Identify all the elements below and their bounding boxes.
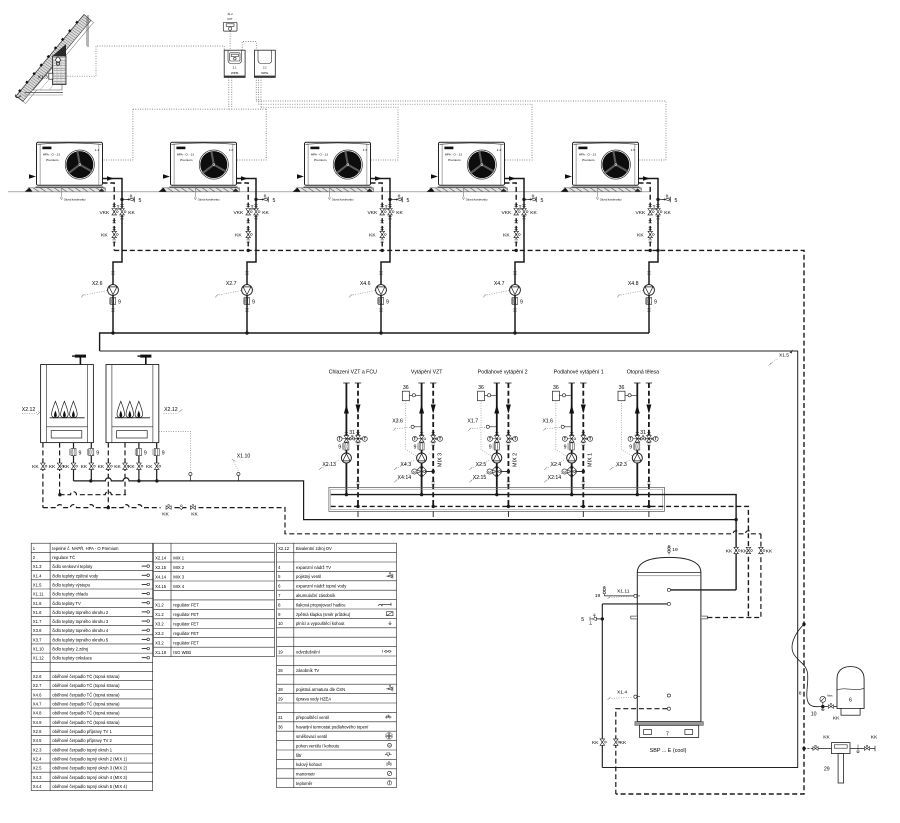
shut-off valve KK on supply of 1.2 [254,205,257,207]
boiler return bus A [60,492,127,495]
pump X2.3 of Otopná tělesa [632,453,642,463]
check valve 9 of Otopná tělesa [634,443,640,450]
svg-text:čidlo teploty topného okruhu 4: čidlo teploty topného okruhu 4 [52,628,109,633]
junction supply [570,493,573,496]
svg-text:9: 9 [564,445,567,451]
stub below manifold [507,511,509,517]
svg-text:MIX 3: MIX 3 [173,574,185,579]
return line of Podlahové vytápění 2 [505,382,511,384]
svg-text:6: 6 [849,698,852,704]
flow arrow on supply of 1.5 [643,176,650,180]
flexible connection hose 8 [792,624,818,707]
svg-text:směšovací ventil: směšovací ventil [296,734,327,739]
return line of Podlahové vytápění 1 [580,382,586,384]
svg-text:X1.4: X1.4 [33,573,42,578]
svg-text:1.3: 1.3 [363,148,368,152]
svg-text:X1.2: X1.2 [227,12,233,16]
drain between valves [175,507,187,509]
check valve 9 on boiler supply 1 [70,449,76,456]
bridge between pipes of 1.4 [516,208,524,210]
svg-text:X1.5: X1.5 [779,353,789,359]
svg-text:Podlahové vytápění 1: Podlahové vytápění 1 [554,370,604,376]
shut-off valve KK on tank supply riser [734,547,740,553]
cooling return dashed from tank [616,709,668,794]
pump X2.5 of Podlahové vytápění 2 [492,453,502,463]
svg-text:VKK: VKK [368,210,379,216]
flow arrow down on Podlahové vytápění 2 [506,405,511,414]
svg-text:KK: KK [235,233,242,239]
svg-text:X3.2: X3.2 [155,641,164,646]
heat pump 1.5 HPA-O-13 Premium [561,142,642,192]
svg-text:9: 9 [144,450,147,456]
svg-text:KK: KK [726,548,733,554]
svg-text:X2.5: X2.5 [33,766,42,771]
dotted bus to HP5 [256,101,666,160]
svg-text:Chlazení VZT a FCU: Chlazení VZT a FCU [329,370,377,376]
inlet arrow of 1.4 [431,174,438,178]
valve KK on return of 1.4 [514,231,520,237]
water treatment unit 29 [832,743,851,754]
svg-text:oběhové čerpadlo TČ (topná str: oběhové čerpadlo TČ (topná strana) [52,702,120,707]
junction of boiler supply into riser [734,518,737,521]
svg-text:X2.6: X2.6 [92,281,103,287]
circulation pump X4.7 [510,285,521,296]
roof gutter [15,95,21,98]
thermometer on return of Otopná tělesa [653,436,658,441]
svg-text:X2.14: X2.14 [155,555,167,560]
svg-text:oběhové čerpadlo TČ (topná str: oběhové čerpadlo TČ (topná strana) [52,674,120,679]
svg-text:X1.18: X1.18 [155,650,167,655]
svg-text:9: 9 [654,299,657,305]
check valve 9 of 1.4 [511,297,517,304]
safety thermostat 36 of Otopná tělesa [618,391,625,401]
controller 2.2 WPE [254,50,275,77]
safety valve 5 of 1.2 [254,198,257,201]
svg-text:čidlo teploty topného okruhu 2: čidlo teploty topného okruhu 2 [52,610,109,615]
svg-text:oběhové čerpadlo TČ (topná str: oběhové čerpadlo TČ (topná strana) [52,683,120,688]
junction return [582,505,585,508]
riser to tank side port dashed [760,534,762,618]
junction supply [345,493,348,496]
svg-text:9: 9 [162,450,165,456]
supply pipe from 1.3 [371,179,391,197]
svg-text:Odvod kondenzátu: Odvod kondenzátu [64,197,86,201]
svg-text:KK: KK [146,464,153,470]
svg-text:KK: KK [101,233,108,239]
return line of Otopná tělesa [646,382,652,384]
junction on boiler supply bus [89,479,92,482]
bypass to return of Vytápění VZT [425,471,433,473]
svg-text:Otopná tělesa: Otopná tělesa [627,370,659,376]
junction on return bus [381,249,384,252]
svg-text:X2.12: X2.12 [164,407,178,413]
return pipe of 1.3 [371,183,383,250]
valve on supply of Podlahové vytápění 1 [570,433,573,435]
svg-text:MIX 3: MIX 3 [437,453,443,467]
tank port to cold line [667,602,670,605]
valve on return of Chlazení VZT a FCU [356,433,359,435]
boiler return pipe 1 dashed [107,443,109,508]
fitting above manifold [356,482,359,484]
svg-text:čidlo venkovní teploty: čidlo venkovní teploty [52,564,93,569]
safety valve 5 of 1.1 [120,198,123,201]
svg-text:KK: KK [114,464,121,470]
inlet arrow of 1.2 [163,174,170,178]
boiler return bus B [43,505,161,508]
valve on return of Podlahové vytápění 1 [582,433,585,435]
svg-text:9: 9 [629,445,632,451]
svg-text:čidlo teploty TV: čidlo teploty TV [52,601,81,606]
pipe pump to header of 1.5 [648,295,650,333]
shut-off valve KK under boiler [71,463,77,469]
supply drop of 1.3 [381,215,390,285]
end tick of treatment line [874,746,876,751]
svg-text:WPE: WPE [261,71,268,75]
capillary of thermostat 36 of Podlahové vytápění 1 [556,401,567,457]
svg-text:Premium: Premium [46,158,59,162]
svg-text:Odvod kondenzátu: Odvod kondenzátu [198,197,220,201]
immersion sensor on boiler bus [189,476,191,481]
svg-text:X3.2: X3.2 [155,631,164,636]
overflow valve 31 of Chlazení VZT a FCU [346,438,358,440]
svg-text:čidlo teploty chladu: čidlo teploty chladu [52,592,88,597]
valve VKK of 1.2 [246,209,252,215]
wires WPM down to heat pump bus [228,77,230,109]
flow arrow up on Podlahové vytápění 2 [494,405,499,414]
bridge between pipes of 1.5 [650,208,658,210]
stub below manifold [582,511,584,517]
pipe pump to header of 1.3 [380,295,382,333]
solid supply header [100,333,649,351]
condensate drain of 1.4 [462,185,488,201]
boiler return pipe 1 dashed [42,443,44,508]
junction return [507,505,510,508]
svg-text:KK: KK [128,210,135,216]
thermometer on return of Vytápění VZT [438,436,443,441]
svg-text:KKT: KKT [227,17,232,21]
svg-text:WPM: WPM [231,71,239,75]
tank side stubs [631,616,638,619]
svg-text:akumulační zásobník: akumulační zásobník [296,593,336,598]
room unit KKT [223,22,237,31]
shut-off valve KK under boiler [89,463,95,469]
svg-text:5: 5 [273,198,276,204]
dashed return bus from heat pumps [114,250,804,794]
svg-text:9: 9 [489,445,492,451]
svg-text:X1.2: X1.2 [155,612,164,617]
junction on return bus [649,249,652,252]
flow arrow down on Podlahové vytápění 1 [581,405,586,414]
pump X2.4 of Podlahové vytápění 1 [567,453,577,463]
shut-off valve KK on supply of 1.5 [656,205,659,207]
svg-text:X2.3: X2.3 [616,462,627,468]
svg-text:odvzdušnění: odvzdušnění [296,649,321,654]
supply drop of 1.5 [649,215,658,285]
svg-text:31: 31 [349,430,355,436]
actuator of X2.14 [562,469,567,474]
shut-off valve KK under boiler [57,463,63,469]
svg-text:Man.: Man. [827,693,833,697]
valve KK on return of 1.3 [380,231,386,237]
svg-text:X4.5: X4.5 [33,738,42,743]
svg-text:MIX 4: MIX 4 [173,584,185,589]
return line of Chlazení VZT a FCU [355,382,361,384]
stub below manifold [357,511,359,517]
svg-text:MIX 1: MIX 1 [588,453,594,467]
dotted wire boiler 2 to sensor [159,431,191,471]
svg-text:X4.14: X4.14 [398,475,412,481]
svg-text:X3.6: X3.6 [392,418,403,424]
junction return [647,505,650,508]
svg-text:HPA - O - 13: HPA - O - 13 [177,152,195,156]
check valve 9 of Podlahové vytápění 2 [493,443,499,450]
check valve 9 of Chlazení VZT a FCU [343,443,349,450]
svg-text:HPA - O - 13: HPA - O - 13 [311,152,329,156]
legend table middle [154,543,275,656]
bypass to return of Podlahové vytápění 1 [575,471,583,473]
return pipe of 1.4 [505,183,517,250]
immersion sensor X1.10 on boiler bus [237,476,239,481]
svg-text:KK: KK [637,233,644,239]
heat pump 1.4 HPA-O-13 Premium [427,142,508,192]
svg-text:X3.2: X3.2 [155,622,164,627]
svg-text:čidlo teploty zpětné vody: čidlo teploty zpětné vody [52,573,99,578]
valve VKK of 1.1 [112,209,118,215]
svg-text:X2.14: X2.14 [548,475,562,481]
svg-text:X2.15: X2.15 [155,565,167,570]
svg-text:M: M [388,743,390,747]
svg-text:X2.12: X2.12 [278,546,290,551]
check valve 9 on boiler supply 2 [153,449,159,456]
junction supply [420,493,423,496]
pipe pump to header of 1.2 [246,295,248,333]
inlet arrow of 1.1 [29,174,36,178]
safety valve 5 of 1.3 [388,198,391,201]
valve on supply of Chlazení VZT a FCU [345,433,348,435]
wall column with brick hatch [53,56,67,85]
svg-text:Premium: Premium [582,158,595,162]
shut-off valve KK on tank return riser [746,547,752,553]
flow arrow up on Vytápění VZT [419,405,424,414]
sensor X1.4 on tank [634,695,637,698]
capillary of thermostat 36 of Vytápění VZT [406,401,417,457]
svg-text:Odvod kondenzátu: Odvod kondenzátu [466,197,488,201]
svg-text:X1.6: X1.6 [33,610,42,615]
svg-text:regulátor FET: regulátor FET [173,631,199,636]
svg-text:M: M [413,470,416,474]
svg-text:X4.4: X4.4 [33,784,42,789]
return bus B continues to tank [199,508,761,534]
svg-text:X3.6: X3.6 [33,628,42,633]
thermometer on supply of Vytápění VZT [412,436,417,441]
stub below manifold [648,511,650,517]
svg-text:MIX 2: MIX 2 [513,453,519,467]
legend table left [31,543,153,790]
flow arrow on supply of 1.2 [241,176,248,180]
svg-text:X1.11: X1.11 [617,589,630,595]
roof gable edge [87,15,89,47]
wire WPM to WPE dotted [242,42,256,51]
svg-text:5: 5 [675,198,678,204]
svg-text:X3.7: X3.7 [33,637,42,642]
manifold return bus [331,506,749,617]
actuator of X2.15 [487,469,492,474]
thermometer on supply of Chlazení VZT a FCU [337,436,342,441]
svg-text:KK: KK [262,210,269,216]
svg-text:zásobník TV: zásobník TV [296,668,319,673]
svg-text:oběhové čerpadlo topný okruh 1: oběhové čerpadlo topný okruh 1 [52,747,113,752]
svg-text:X1.6: X1.6 [542,418,553,424]
sensor X3.6 of Vytápění VZT [414,426,421,428]
tank base band [635,722,703,726]
mixing valve X4.14 of Vytápění VZT [416,466,428,478]
boiler supply pipe 2 [156,443,158,481]
svg-text:36: 36 [553,385,559,391]
svg-text:VKK: VKK [100,210,111,216]
svg-text:pohon ventilu / kohoutu: pohon ventilu / kohoutu [296,743,340,748]
junction return [356,505,359,508]
svg-text:KK: KK [503,233,510,239]
shut-off valve KK under boiler [137,463,143,469]
svg-text:expanzní nádrž topné vody: expanzní nádrž topné vody [296,584,347,589]
svg-text:X4.9: X4.9 [33,720,42,725]
safety valve 5 of 1.4 [522,198,525,201]
svg-text:9: 9 [79,450,82,456]
svg-text:VKK: VKK [636,210,647,216]
supply pipe from 1.2 [237,179,257,197]
valve on supply of Vytápění VZT [420,433,423,435]
bypass to return of Podlahové vytápění 2 [500,471,508,473]
ball valve KK 2 on return bus [190,504,195,509]
dotted wire from X1.3 to WPM [53,46,224,76]
supply line of Vytápění VZT [418,382,424,384]
valve KK on return of 1.2 [246,231,252,237]
thermometer on return of Podlahové vytápění 1 [588,436,593,441]
svg-text:X4.14: X4.14 [155,574,167,579]
actuator of X4.14 [412,469,417,474]
condensate drain of 1.2 [194,185,220,201]
check valve 9 of Vytápění VZT [418,443,424,450]
svg-text:X1.12: X1.12 [33,656,45,661]
svg-text:Premium: Premium [180,158,193,162]
flow arrow up on Chlazení VZT a FCU [344,405,349,414]
svg-text:KK: KK [396,210,403,216]
junction dot at HP5 supply crossing [656,249,659,252]
safety valve 5 at tank [601,617,604,620]
svg-text:pojistný ventil: pojistný ventil [296,574,321,579]
sensor X1.6 of Podlahové vytápění 1 [564,426,571,428]
svg-text:36: 36 [619,385,625,391]
check valve 9 of 1.2 [243,297,249,304]
line hose to vessel [819,706,838,708]
circulation pump X2.7 [242,285,253,296]
svg-text:X1.3: X1.3 [33,564,42,569]
tank lower port circles [667,694,670,697]
svg-text:oběhové čerpadlo přípravy TV 2: oběhové čerpadlo přípravy TV 2 [52,738,112,743]
svg-text:9: 9 [386,299,389,305]
check valve 9 of 1.1 [109,297,115,304]
svg-text:regulátor FET: regulátor FET [173,603,199,608]
circulation pump X4.8 [644,285,655,296]
svg-text:KK: KK [63,464,70,470]
svg-text:oběhové čerpadlo topný okruh 4: oběhové čerpadlo topný okruh 4 (MIX 3) [52,775,127,780]
svg-text:HPA - O - 13: HPA - O - 13 [43,152,61,156]
supply line of Otopná tělesa [634,382,640,384]
svg-text:X2.7: X2.7 [33,683,42,688]
svg-text:Premium: Premium [314,158,327,162]
svg-text:31: 31 [278,715,283,720]
svg-text:VKK: VKK [234,210,245,216]
svg-text:2.1: 2.1 [233,66,237,70]
burner flames of boiler 1 [52,401,60,417]
svg-text:M: M [563,470,566,474]
boiler return pipe 2 dashed [59,443,61,495]
safety valve 5 of 1.5 [656,198,659,201]
svg-text:X4.6: X4.6 [33,692,42,697]
svg-text:přepouštěcí ventil: přepouštěcí ventil [296,715,329,720]
roof cross-section detail [16,15,94,104]
safety thermostat 36 of Vytápění VZT [402,391,409,401]
supply line of Podlahové vytápění 2 [494,382,500,384]
svg-text:KK: KK [81,464,88,470]
bridge between pipes of 1.1 [114,208,122,210]
pipe pump to header of 1.4 [514,295,516,333]
inlet arrow of 1.5 [565,174,572,178]
stub below manifold [432,511,434,517]
svg-text:X1.7: X1.7 [33,619,42,624]
pump X4.3 of Vytápění VZT [417,453,427,463]
big plant-room box [100,351,798,768]
sensor X1.11 on tank [634,594,637,597]
svg-text:19: 19 [595,593,601,599]
mixing valve X2.14 of Podlahové vytápění 1 [566,466,578,478]
bridge between pipes of 1.3 [382,208,390,210]
svg-text:29: 29 [824,767,830,773]
supply pipe from 1.5 [639,179,659,197]
svg-text:KK: KK [664,210,671,216]
fitting above manifold [432,482,435,484]
gas boiler 2 bivalent source [106,355,159,443]
svg-text:31: 31 [640,430,646,436]
svg-text:úprava vody HZEA: úprava vody HZEA [296,696,331,701]
svg-text:KK: KK [128,464,135,470]
svg-text:Podlahové vytápění 2: Podlahové vytápění 2 [478,370,528,376]
svg-text:29: 29 [278,696,283,701]
boiler supply pipe 1 [138,443,140,481]
flow arrow on supply of 1.1 [107,176,114,180]
flow arrow down on Otopná tělesa [646,405,651,414]
svg-text:10: 10 [278,621,283,626]
svg-text:X4.6: X4.6 [360,281,371,287]
junction on return bus [247,249,250,252]
valve on supply of Podlahové vytápění 2 [495,433,498,435]
svg-text:regulátor FET: regulátor FET [173,622,199,627]
svg-text:KK: KK [162,512,169,518]
supply pipe from 1.1 [103,179,123,197]
svg-text:X1.2: X1.2 [155,603,164,608]
thermometer on supply of Podlahové vytápění 1 [562,436,567,441]
svg-text:10: 10 [811,712,817,718]
fitting above manifold [647,482,650,484]
shut-off valve KK under boiler [41,463,47,469]
side port line dashed [707,617,761,619]
wires WPE down [255,77,257,101]
svg-text:M: M [488,470,491,474]
svg-text:X1.11: X1.11 [33,592,44,597]
svg-text:X4.3: X4.3 [33,775,42,780]
svg-text:1.1: 1.1 [95,148,100,152]
svg-text:X2.7: X2.7 [226,281,237,287]
